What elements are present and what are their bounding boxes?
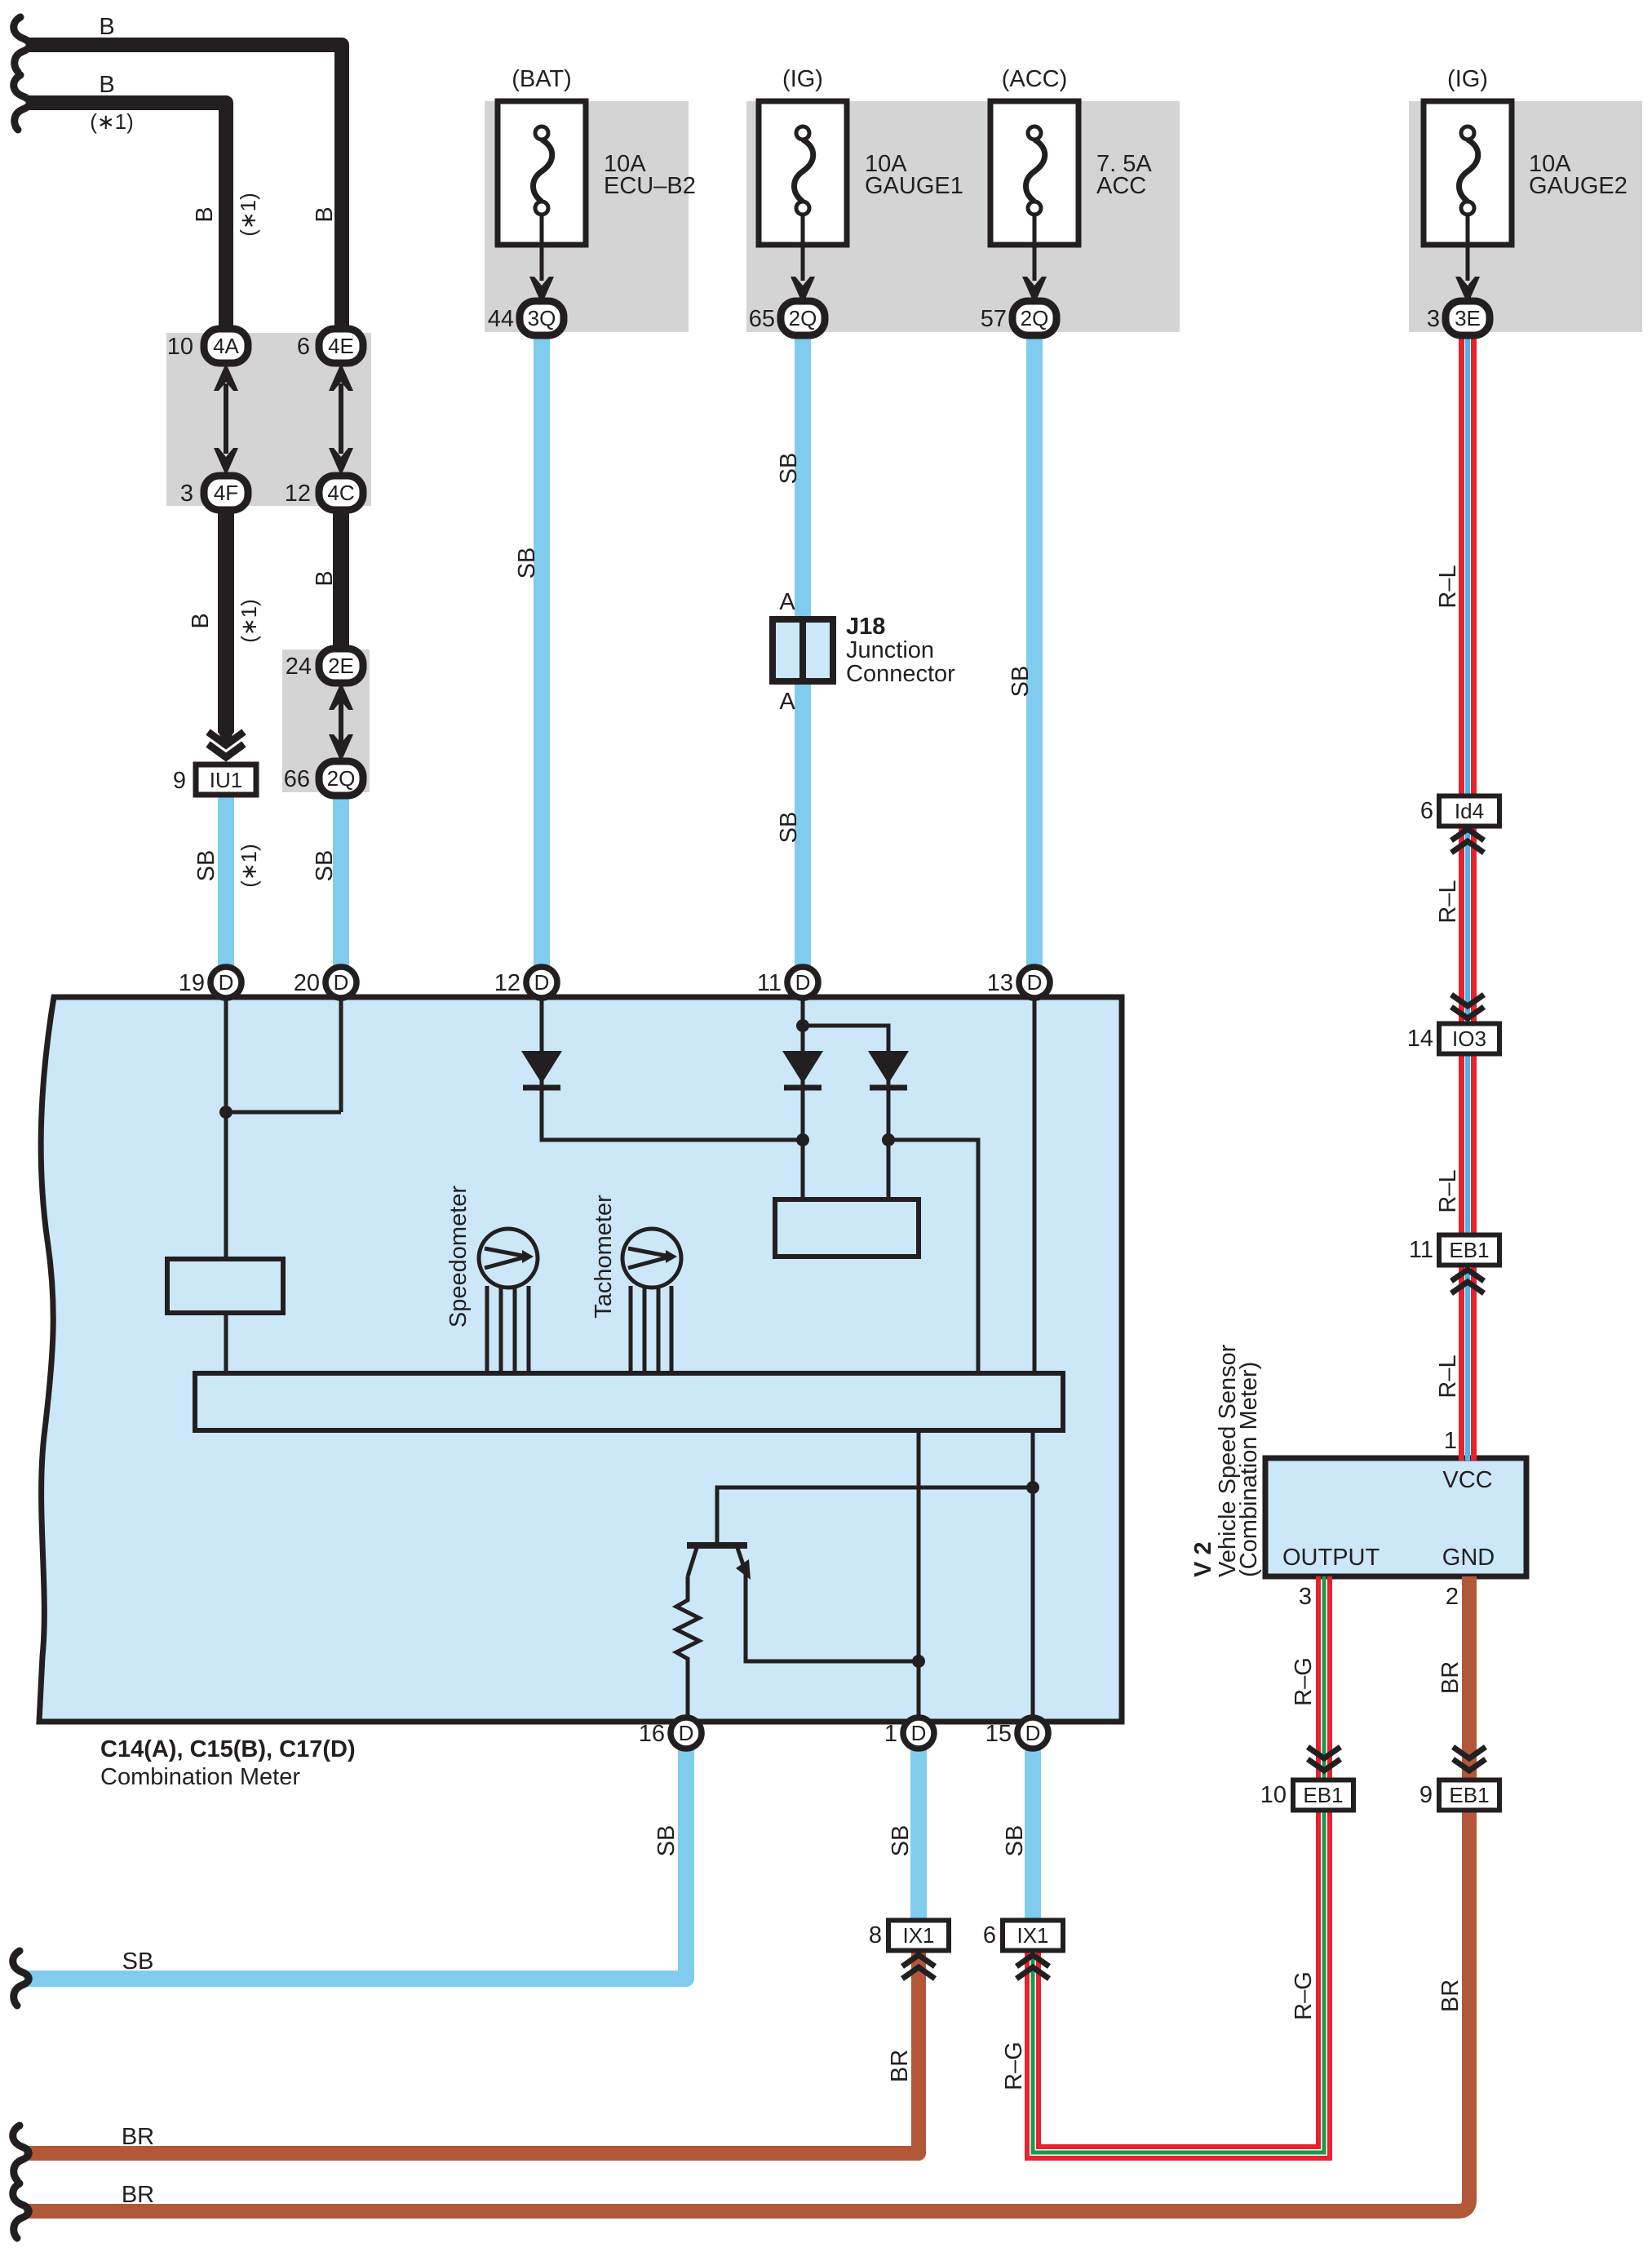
- junction dot pins 19/20: [219, 1106, 233, 1119]
- svg-text:B: B: [188, 613, 214, 628]
- fuse 10A ECU-B2 (BAT): [498, 101, 586, 304]
- svg-text:SB: SB: [514, 547, 540, 579]
- svg-text:14: 14: [1407, 1026, 1433, 1052]
- connector box IX1 pin 6: [1003, 1921, 1063, 1951]
- pass-through arrow between 4A and 4F: [214, 363, 238, 476]
- junction block J/B gray panel (BAT fuse area): [485, 101, 689, 332]
- meter internal wire from pin 19 down to internal block: [224, 982, 228, 1261]
- junction dot on pin 15 line: [1026, 1481, 1039, 1494]
- svg-text:SB: SB: [1008, 666, 1034, 698]
- svg-text:3: 3: [1427, 306, 1440, 332]
- svg-text:GND: GND: [1442, 1545, 1495, 1571]
- svg-text:A: A: [779, 589, 795, 615]
- svg-text:6: 6: [983, 1922, 996, 1948]
- tachometer gauge symbol: [622, 1229, 681, 1376]
- pass-through arrow between 2E and 2Q: [329, 682, 353, 762]
- wire BR from connector IX1(8) to left break: [24, 1951, 919, 2153]
- wire B from connector 4F down to IU1: [218, 506, 234, 733]
- svg-text:2E: 2E: [328, 654, 354, 678]
- connector box Id4 pin 6: [1439, 796, 1499, 827]
- connector oval 2Q pin 65: [781, 301, 825, 335]
- svg-text:2Q: 2Q: [789, 306, 817, 330]
- svg-text:8: 8: [869, 1922, 882, 1948]
- connector oval 3Q pin 44: [520, 301, 564, 335]
- svg-text:ACC: ACC: [1096, 173, 1146, 199]
- svg-text:Combination Meter: Combination Meter: [100, 1764, 300, 1790]
- wire R-G (green stripe): [1322, 1576, 1326, 1783]
- svg-text:D: D: [534, 970, 550, 995]
- connector box EB1 pin 9: [1439, 1780, 1499, 1811]
- junction block gray panel (GAUGE2 fuse area): [1409, 101, 1642, 332]
- svg-text:SB: SB: [122, 1948, 154, 1975]
- svg-text:(∗1): (∗1): [237, 599, 261, 643]
- fuse 7.5A ACC (ACC): [990, 101, 1078, 304]
- meter pin 1 D: [903, 1718, 934, 1749]
- svg-text:2: 2: [1446, 1584, 1459, 1610]
- speedometer gauge symbol: [479, 1229, 538, 1376]
- meter pin 12 D: [526, 967, 557, 998]
- wire SB from fuse ECU-B2 connector 3Q to meter pin 12: [534, 330, 550, 982]
- meter internal wire from bus to pin 15: [1031, 1430, 1035, 1722]
- svg-text:(∗1): (∗1): [90, 109, 134, 134]
- wire R-L (red stripe right): [1471, 330, 1477, 1461]
- svg-text:13: 13: [987, 970, 1013, 996]
- wire B from connector 4C down to connector 2E: [333, 506, 349, 653]
- chevron arrow above EB1(9): [1453, 1747, 1486, 1771]
- svg-text:SB: SB: [653, 1825, 680, 1857]
- svg-text:1: 1: [1444, 1428, 1457, 1454]
- svg-text:3E: 3E: [1455, 306, 1481, 330]
- svg-text:BR: BR: [122, 2182, 154, 2208]
- connector box IX1 pin 8: [888, 1921, 949, 1951]
- connector oval 2Q pin 57: [1012, 301, 1056, 335]
- transistor Q1 collector lead: [688, 1548, 697, 1576]
- svg-text:3: 3: [1299, 1584, 1312, 1610]
- svg-text:A: A: [779, 689, 795, 715]
- svg-text:Speedometer: Speedometer: [445, 1186, 472, 1328]
- fuse 10A GAUGE1 (IG): [759, 101, 847, 304]
- svg-text:IO3: IO3: [1452, 1026, 1486, 1051]
- connector oval 3E pin 3: [1446, 301, 1490, 335]
- svg-text:B: B: [99, 14, 114, 40]
- svg-text:10: 10: [1260, 1782, 1287, 1808]
- meter internal wire from D3 junction right and down to bus: [888, 1140, 978, 1376]
- svg-text:D: D: [219, 970, 234, 995]
- svg-text:R–G: R–G: [1001, 2041, 1027, 2090]
- svg-text:GAUGE2: GAUGE2: [1529, 173, 1628, 199]
- svg-text:20: 20: [294, 970, 320, 996]
- chevron arrow below IX1(8): [902, 1955, 935, 1979]
- svg-text:(IG): (IG): [1447, 66, 1488, 92]
- svg-text:4C: 4C: [327, 481, 354, 505]
- svg-text:BR: BR: [1437, 1979, 1464, 2012]
- meter internal branch wire right from pin 11: [803, 1026, 888, 1202]
- junction dot D3 line: [882, 1133, 895, 1146]
- svg-text:IX1: IX1: [902, 1923, 934, 1948]
- transistor Q1 emitter lead with arrow: [737, 1548, 746, 1572]
- chevron arrow below IX1(6): [1016, 1955, 1049, 1979]
- svg-text:Junction: Junction: [846, 637, 934, 663]
- svg-text:EB1: EB1: [1449, 1238, 1489, 1262]
- wire R-L from fuse GAUGE2 connector 3E to V2 VCC pin 1 (red stripe): [1459, 330, 1464, 1461]
- wire R-G from V2 OUTPUT pin 3 to connector EB1(10) (red stripe): [1316, 1576, 1321, 1783]
- svg-text:65: 65: [749, 306, 775, 332]
- wire SB from meter pin 1 to connector IX1(8): [910, 1733, 927, 1926]
- svg-text:2Q: 2Q: [1021, 306, 1049, 330]
- svg-text:D: D: [1025, 1721, 1041, 1745]
- svg-text:6: 6: [1420, 798, 1433, 824]
- wire break squiggle bottom SB: [13, 1951, 29, 2006]
- wire R-G (red stripe outer): [1027, 1808, 1330, 2158]
- junction dot emitter to pin 1 line: [912, 1655, 925, 1668]
- svg-text:D: D: [911, 1721, 927, 1745]
- meter internal wire from pin 15 line to transistor base: [717, 1487, 1033, 1543]
- chevron arrow above EB1(10): [1308, 1747, 1340, 1771]
- svg-text:BR: BR: [1437, 1661, 1464, 1694]
- svg-text:24: 24: [286, 654, 312, 680]
- connector oval 4E pin 6: [319, 329, 363, 363]
- meter internal block (unnamed) below diodes: [775, 1199, 919, 1257]
- svg-text:D: D: [795, 970, 811, 995]
- wire R-G from connector EB1(10) down, left, up to connector IX1(6) (red stripe): [1039, 1808, 1318, 2147]
- resistor R1 on pin 16 line: [676, 1576, 699, 1722]
- wire B (*1) thick black second from left break to connector 4A: [28, 103, 226, 330]
- svg-text:(ACC): (ACC): [1002, 66, 1068, 92]
- connector oval 2E pin 24: [319, 649, 363, 683]
- meter pin 11 D: [787, 967, 818, 998]
- meter internal wire from pin 13 to bus: [1033, 982, 1037, 1376]
- svg-text:(BAT): (BAT): [512, 66, 572, 92]
- wire SB from meter pin 15 to connector IX1(6): [1025, 1733, 1041, 1926]
- connector pass-through gray panel (2E/2Q): [282, 649, 370, 792]
- svg-text:(IG): (IG): [782, 66, 823, 92]
- wire R-L (blue stripe): [1465, 330, 1470, 1461]
- svg-text:B: B: [99, 72, 114, 98]
- svg-text:BR: BR: [122, 2124, 154, 2150]
- svg-text:19: 19: [179, 970, 205, 996]
- svg-text:9: 9: [1419, 1782, 1433, 1808]
- svg-text:B: B: [312, 206, 338, 222]
- junction dot on pin 11 line: [796, 1019, 809, 1032]
- wire SB from connector 2Q(66) to meter pin 20: [333, 791, 349, 982]
- connector oval 4C pin 12: [319, 476, 363, 510]
- connector oval 2Q pin 66: [319, 761, 363, 796]
- meter internal wire from pin 11 down to internal block: [801, 982, 805, 1202]
- svg-text:B: B: [192, 206, 218, 222]
- junction connector J18: [773, 619, 833, 681]
- meter pin 13 D: [1019, 967, 1050, 998]
- double chevron arrow into IU1: [208, 732, 244, 757]
- svg-text:SB: SB: [1002, 1825, 1028, 1857]
- svg-text:9: 9: [173, 768, 186, 794]
- svg-text:Id4: Id4: [1455, 799, 1484, 823]
- svg-text:4E: 4E: [328, 334, 354, 358]
- svg-text:11: 11: [1409, 1237, 1433, 1263]
- svg-text:57: 57: [981, 306, 1007, 332]
- fuse 10A GAUGE2 (IG): [1424, 101, 1512, 304]
- svg-text:44: 44: [488, 306, 514, 332]
- connector oval 4F pin 3: [204, 476, 248, 510]
- meter internal wire from bus to pin 1: [917, 1430, 921, 1722]
- svg-text:15: 15: [985, 1721, 1012, 1747]
- connector pass-through gray panel (4A/4E/4F/4C): [166, 333, 371, 506]
- wire SB from fuse GAUGE1 connector 2Q(65) through J18 to meter pin 11: [795, 330, 811, 982]
- svg-text:(∗1): (∗1): [236, 193, 260, 237]
- svg-text:R–G: R–G: [1291, 1971, 1317, 2020]
- meter internal wire from emitter down and right to pin 1 line: [746, 1572, 919, 1661]
- meter pin 19 D: [210, 967, 241, 998]
- svg-text:R–L: R–L: [1435, 880, 1461, 923]
- wire break squiggle second wire B: [14, 75, 30, 130]
- svg-text:SB: SB: [312, 850, 338, 882]
- svg-text:10: 10: [167, 334, 193, 360]
- svg-text:(∗1): (∗1): [237, 844, 261, 888]
- diode D2 on pin 11 line: [782, 1051, 823, 1088]
- diode D1 on pin 12 line: [521, 1051, 562, 1088]
- wire B taper tip at IU1: [218, 731, 234, 749]
- svg-text:4A: 4A: [213, 334, 239, 358]
- vehicle speed sensor V2 block: [1265, 1458, 1526, 1576]
- svg-text:IX1: IX1: [1016, 1923, 1048, 1948]
- svg-text:B: B: [312, 570, 338, 586]
- combination meter block C14(A),C15(B),C17(D): [39, 997, 1122, 1722]
- svg-text:Tachometer: Tachometer: [591, 1195, 617, 1319]
- wire break squiggle middle BR: [13, 2126, 29, 2180]
- connector box IO3 pin 14: [1439, 1024, 1499, 1054]
- svg-text:3: 3: [180, 481, 193, 507]
- svg-text:R–L: R–L: [1435, 1354, 1461, 1398]
- pass-through arrow between 4E and 4C: [329, 363, 353, 476]
- svg-text:SB: SB: [193, 850, 219, 882]
- chevron arrow below EB1(11): [1451, 1270, 1484, 1293]
- svg-text:D: D: [1027, 970, 1043, 995]
- chevron arrow above IO3: [1451, 995, 1484, 1018]
- svg-text:2Q: 2Q: [327, 766, 356, 791]
- junction block gray panel (IG + ACC fuse area): [746, 101, 1180, 332]
- wire SB from fuse ACC connector 2Q(57) to meter pin 13: [1026, 330, 1043, 982]
- wire BR from connector EB1(9) to bottom left break: [24, 1808, 1469, 2211]
- svg-text:EB1: EB1: [1449, 1783, 1489, 1807]
- meter internal wire from block to bus: [224, 1313, 228, 1376]
- wire B thick black top from left break to connector 4E: [28, 45, 342, 330]
- svg-text:EB1: EB1: [1303, 1783, 1343, 1807]
- wire R-G (green stripe): [1033, 1808, 1324, 2152]
- meter internal wire from pin 20 down: [339, 982, 343, 1112]
- wire BR from V2 GND pin 2 to connector EB1(9): [1462, 1576, 1477, 1783]
- wire SB from IU1 to meter pin 19: [218, 793, 234, 982]
- svg-text:12: 12: [494, 970, 520, 996]
- svg-text:Connector: Connector: [846, 661, 955, 687]
- meter internal wire from pin 12 through diode to junction: [542, 982, 800, 1140]
- svg-text:GAUGE1: GAUGE1: [865, 173, 963, 199]
- wire break squiggle bottom BR: [13, 2183, 29, 2238]
- meter internal block (unnamed) on pin 19 line: [167, 1259, 283, 1313]
- meter pin 20 D: [326, 967, 357, 998]
- chevron arrow below Id4: [1451, 829, 1484, 853]
- meter pin 15 D: [1017, 1718, 1048, 1749]
- svg-text:4F: 4F: [214, 481, 238, 505]
- meter internal wire joining pin 20 branch to pin 19 line: [226, 1110, 341, 1115]
- meter internal bus bar: [195, 1373, 1063, 1430]
- connector box EB1 pin 10: [1293, 1780, 1353, 1811]
- svg-text:V 2: V 2: [1190, 1541, 1216, 1577]
- svg-text:D: D: [334, 970, 349, 995]
- svg-text:IU1: IU1: [210, 768, 242, 792]
- svg-text:D: D: [679, 1721, 694, 1745]
- svg-text:SB: SB: [888, 1825, 914, 1857]
- svg-text:(Combination Meter): (Combination Meter): [1236, 1362, 1262, 1577]
- svg-text:6: 6: [297, 334, 310, 360]
- wire SB from meter pin 16 to left break: [24, 1733, 686, 1979]
- meter pin 16 D: [671, 1718, 702, 1749]
- svg-text:C14(A), C15(B), C17(D): C14(A), C15(B), C17(D): [100, 1736, 356, 1762]
- diode D3 on branch line: [868, 1051, 909, 1088]
- svg-text:66: 66: [284, 766, 310, 792]
- svg-text:R–G: R–G: [1291, 1657, 1317, 1706]
- svg-text:12: 12: [285, 481, 311, 507]
- svg-text:3Q: 3Q: [528, 306, 556, 330]
- svg-text:ECU–B2: ECU–B2: [604, 173, 696, 199]
- transistor Q1 base bar: [687, 1542, 747, 1549]
- svg-text:VCC: VCC: [1442, 1467, 1492, 1493]
- svg-text:SB: SB: [776, 453, 802, 485]
- svg-text:R–L: R–L: [1435, 1169, 1461, 1212]
- connector oval 4A pin 10: [204, 329, 248, 363]
- svg-text:SB: SB: [776, 812, 802, 844]
- svg-text:BR: BR: [887, 2050, 913, 2082]
- svg-text:R–L: R–L: [1435, 565, 1461, 608]
- svg-text:16: 16: [639, 1721, 665, 1747]
- svg-text:11: 11: [757, 970, 782, 996]
- svg-text:OUTPUT: OUTPUT: [1282, 1545, 1380, 1571]
- connector box EB1 pin 11: [1439, 1235, 1499, 1266]
- svg-text:1: 1: [884, 1721, 897, 1747]
- connector box IU1 pin 9: [196, 765, 256, 795]
- junction dot D2 line and diode D1 feed: [796, 1133, 809, 1146]
- wire R-G (red stripe right): [1327, 1576, 1332, 1783]
- wire break squiggle top wire B: [14, 17, 30, 72]
- svg-text:J18: J18: [846, 614, 885, 640]
